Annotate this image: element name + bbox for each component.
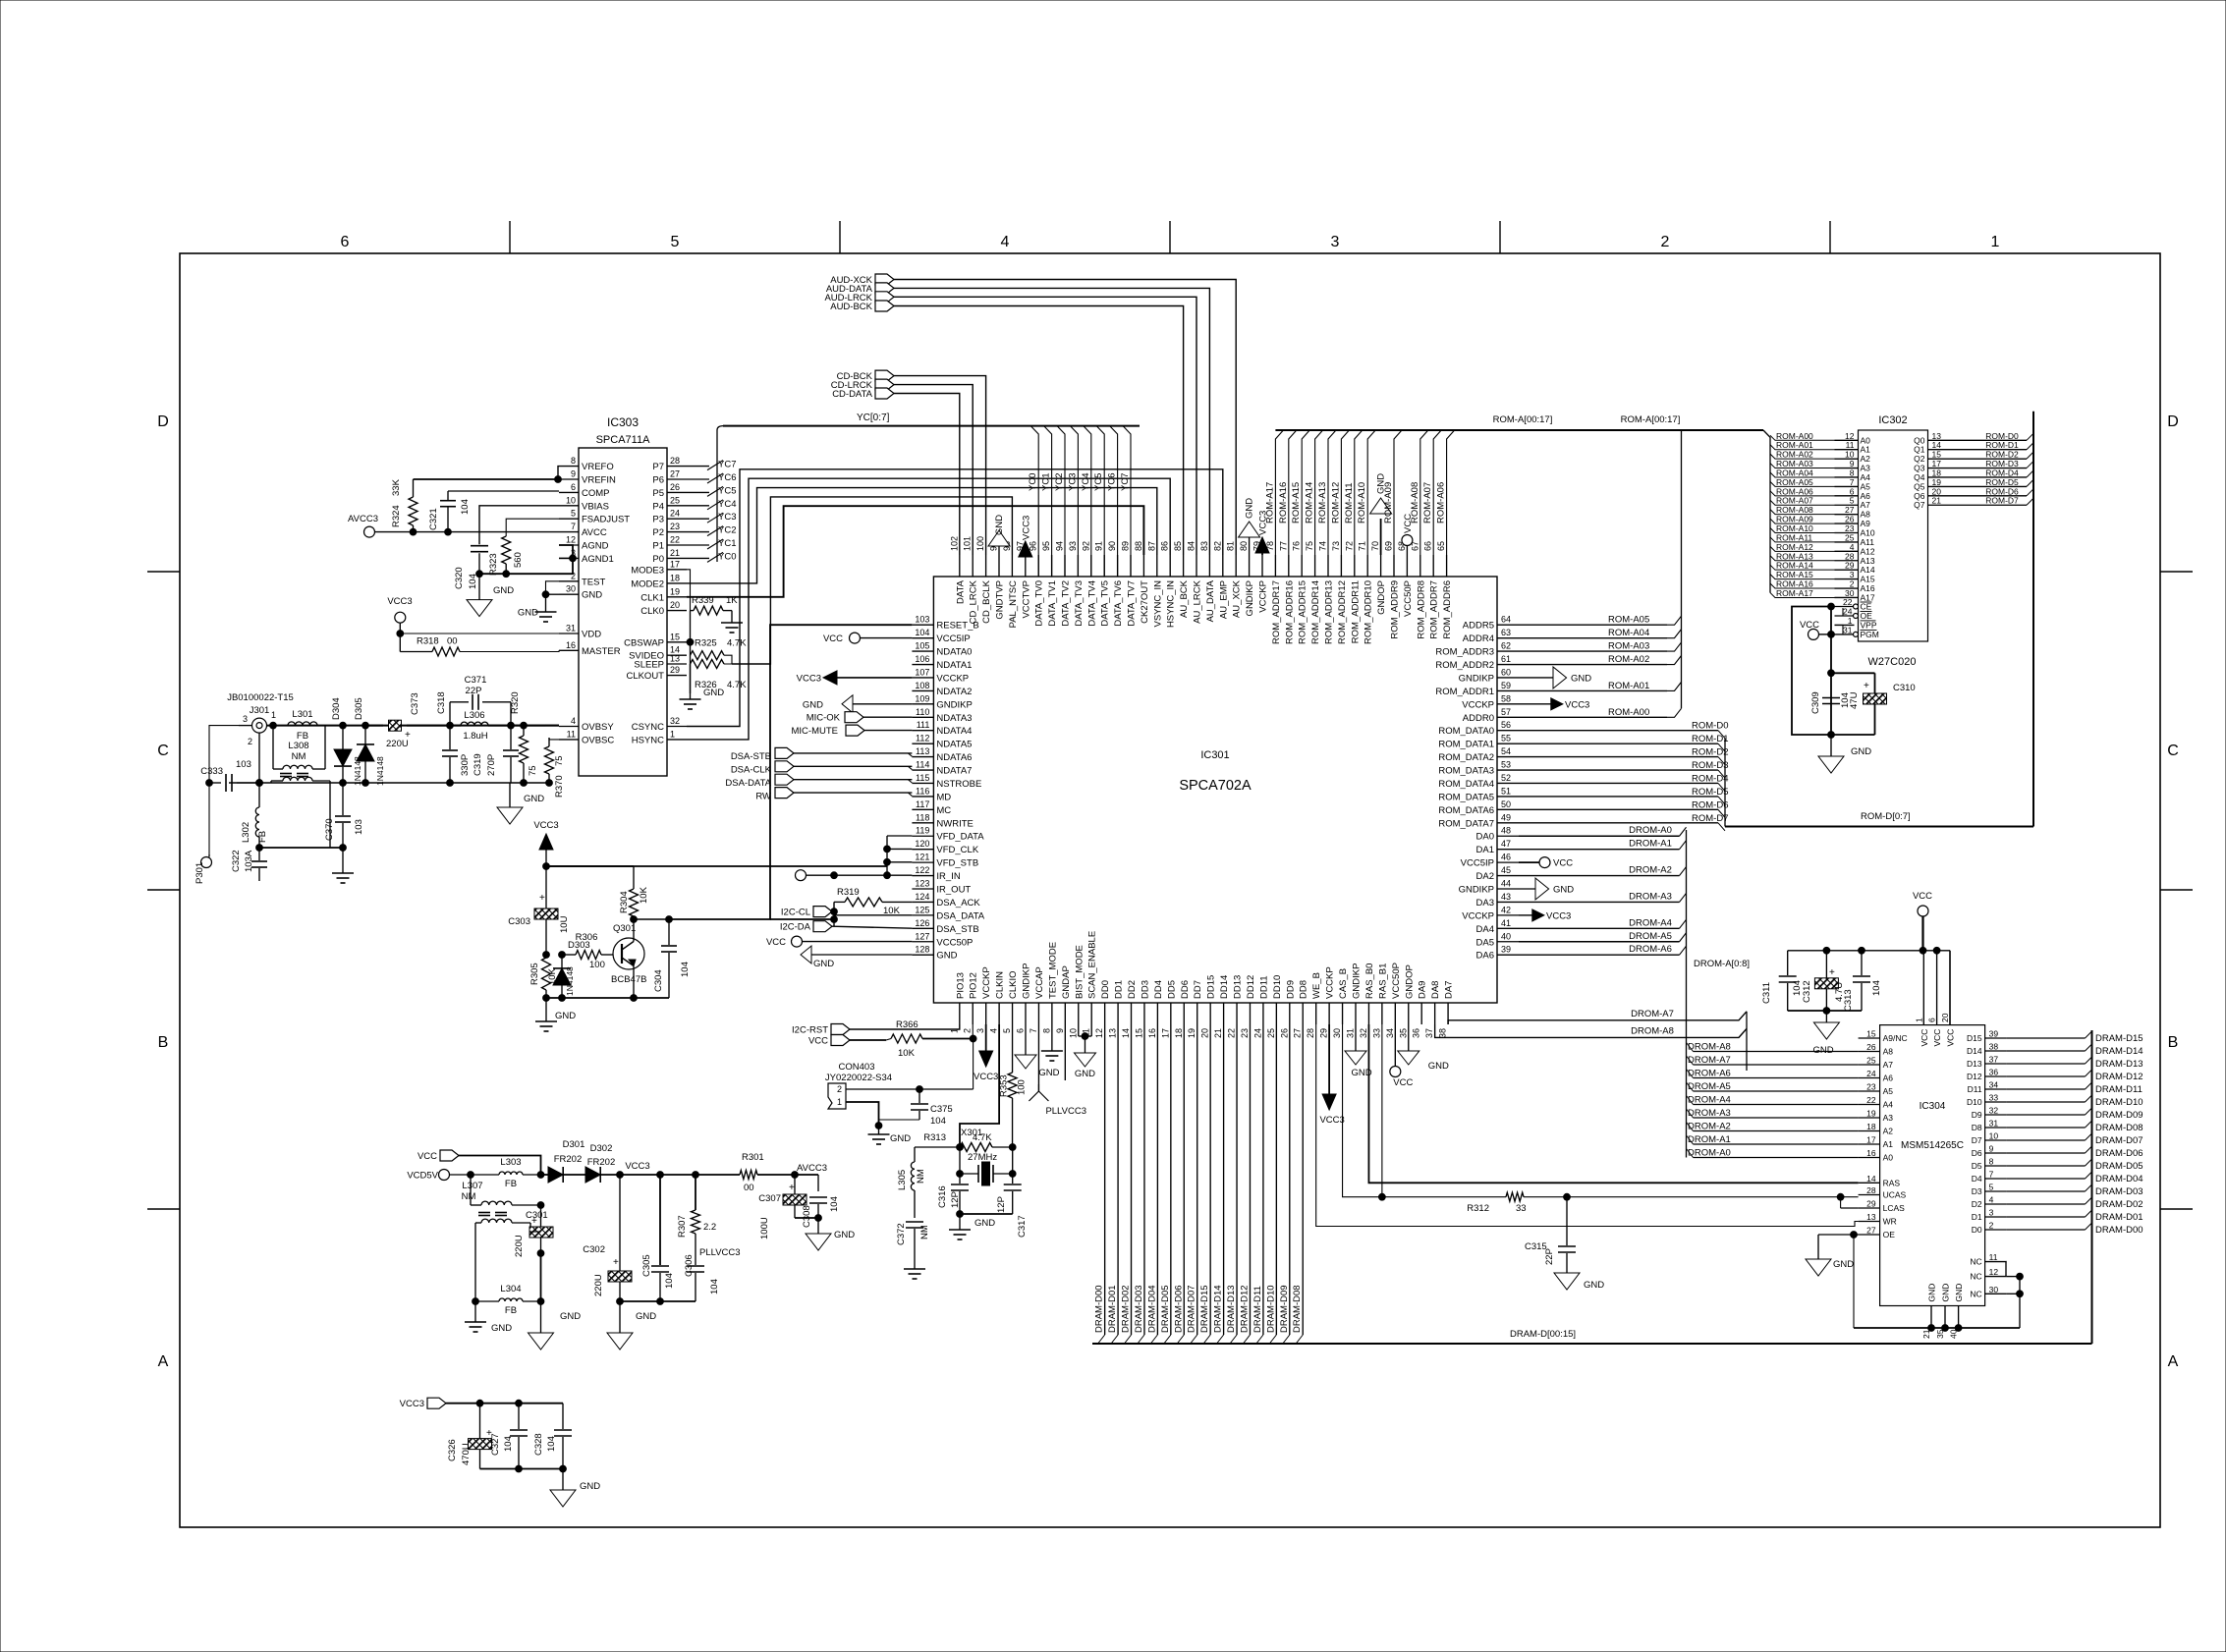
svg-text:90: 90 xyxy=(1107,541,1117,551)
svg-text:66: 66 xyxy=(1423,541,1433,551)
svg-text:VCC: VCC xyxy=(823,633,843,644)
svg-text:53: 53 xyxy=(1501,760,1511,770)
svg-text:MIC-MUTE: MIC-MUTE xyxy=(792,726,839,737)
svg-text:C373: C373 xyxy=(410,692,420,715)
svg-text:75: 75 xyxy=(1305,541,1314,551)
svg-text:16: 16 xyxy=(1147,1028,1157,1038)
svg-text:51: 51 xyxy=(1501,786,1511,796)
svg-text:DRAM-D05: DRAM-D05 xyxy=(1160,1285,1171,1333)
svg-text:70: 70 xyxy=(1370,541,1380,551)
svg-text:D6: D6 xyxy=(1972,1148,1982,1158)
svg-text:38: 38 xyxy=(1438,1028,1448,1038)
svg-text:OE: OE xyxy=(1883,1230,1896,1239)
svg-text:116: 116 xyxy=(916,786,929,796)
svg-text:ROM-A00: ROM-A00 xyxy=(1608,707,1649,718)
svg-text:71: 71 xyxy=(1358,541,1367,551)
svg-text:118: 118 xyxy=(916,812,929,822)
svg-text:4: 4 xyxy=(989,1028,999,1033)
svg-text:114: 114 xyxy=(916,760,929,770)
svg-text:23: 23 xyxy=(670,522,680,531)
svg-text:D5: D5 xyxy=(1972,1161,1982,1171)
svg-text:DRAM-D03: DRAM-D03 xyxy=(1134,1285,1144,1333)
svg-text:L307: L307 xyxy=(462,1181,482,1191)
svg-text:112: 112 xyxy=(916,734,929,743)
svg-text:11: 11 xyxy=(567,729,576,739)
svg-text:MASTER: MASTER xyxy=(582,646,621,657)
svg-text:10U: 10U xyxy=(559,915,570,933)
svg-text:AU_BCK: AU_BCK xyxy=(1179,579,1190,618)
op-amp U1 IC301 SPCA702A main chip xyxy=(912,536,1519,1038)
inductor L302 FB xyxy=(241,783,268,851)
svg-text:104: 104 xyxy=(468,574,478,589)
svg-text:35: 35 xyxy=(1398,1028,1408,1038)
svg-text:C312: C312 xyxy=(1802,980,1812,1003)
svg-text:DROM-A6: DROM-A6 xyxy=(1688,1069,1731,1079)
bus DROM-A[0:8] xyxy=(1687,830,1751,1158)
resistor R320 75 xyxy=(510,691,559,786)
svg-text:AVCC3: AVCC3 xyxy=(348,514,378,524)
svg-text:NDATA1: NDATA1 xyxy=(936,660,972,671)
node VCC3 flag bottom xyxy=(400,1398,563,1409)
svg-text:VCCKP: VCCKP xyxy=(936,673,969,684)
svg-text:89: 89 xyxy=(1121,541,1131,551)
svg-text:C304: C304 xyxy=(653,969,664,992)
svg-text:VREFIN: VREFIN xyxy=(582,475,616,486)
svg-text:Q7: Q7 xyxy=(1914,500,1925,510)
svg-text:R353: R353 xyxy=(999,1074,1010,1097)
svg-text:DD7: DD7 xyxy=(1193,980,1203,999)
svg-text:24: 24 xyxy=(1866,1069,1876,1078)
svg-text:C375: C375 xyxy=(930,1104,953,1115)
svg-text:GNDIKP: GNDIKP xyxy=(936,699,972,710)
svg-text:AGND1: AGND1 xyxy=(582,554,614,565)
svg-text:CBSWAP: CBSWAP xyxy=(624,637,664,648)
svg-text:GND: GND xyxy=(580,1481,600,1492)
svg-text:13: 13 xyxy=(1866,1212,1876,1222)
svg-text:D8: D8 xyxy=(1972,1123,1982,1132)
ground GND at GNDIKP60 xyxy=(1519,667,1591,688)
svg-text:31: 31 xyxy=(1989,1119,1999,1129)
wire crystal gnd xyxy=(960,1213,1013,1215)
svg-text:55: 55 xyxy=(1501,734,1511,743)
svg-text:10: 10 xyxy=(566,495,576,505)
capacitor C320 104 xyxy=(454,506,559,589)
svg-text:ADDR0: ADDR0 xyxy=(1463,713,1494,724)
ground GND at C308 xyxy=(806,1218,855,1250)
svg-text:YC2: YC2 xyxy=(718,525,736,536)
wire LCAS hook xyxy=(1837,1193,1858,1208)
svg-text:R325: R325 xyxy=(695,637,717,648)
svg-text:OVBSY: OVBSY xyxy=(582,722,614,733)
svg-text:DATA_TV4: DATA_TV4 xyxy=(1086,580,1097,627)
svg-text:CD_LRCK: CD_LRCK xyxy=(969,579,979,624)
svg-text:80: 80 xyxy=(1239,541,1249,551)
ground GND bar L304 xyxy=(465,1301,512,1334)
capacitor C312 4.7U polarized xyxy=(1802,951,1845,1011)
ground GND at GNDIKP109 xyxy=(803,695,913,713)
svg-text:85: 85 xyxy=(1173,541,1183,551)
ground GND Q301 xyxy=(535,998,576,1031)
svg-text:27: 27 xyxy=(1293,1028,1303,1038)
svg-text:95: 95 xyxy=(1041,541,1051,551)
svg-text:10: 10 xyxy=(1989,1131,1999,1141)
svg-text:82: 82 xyxy=(1212,541,1222,551)
power VCC3 at VCCKP42 xyxy=(1519,909,1571,922)
svg-text:14: 14 xyxy=(1121,1028,1131,1038)
svg-text:NC: NC xyxy=(1970,1289,1981,1298)
svg-text:VFD_DATA: VFD_DATA xyxy=(936,832,984,843)
svg-text:C303: C303 xyxy=(508,916,530,927)
svg-text:R319: R319 xyxy=(837,887,860,898)
svg-text:YC4: YC4 xyxy=(718,499,736,510)
svg-text:P3: P3 xyxy=(652,515,664,525)
svg-text:DROM-A2: DROM-A2 xyxy=(1688,1122,1731,1132)
svg-text:D12: D12 xyxy=(1967,1072,1982,1081)
wire CLKIN to crystal xyxy=(960,1024,999,1147)
svg-text:GNDIKP: GNDIKP xyxy=(1459,673,1494,684)
svg-text:25: 25 xyxy=(670,495,680,505)
svg-text:GND: GND xyxy=(890,1133,911,1144)
svg-text:D4: D4 xyxy=(1972,1174,1982,1184)
wire IC302 Q fan xyxy=(1952,431,2034,506)
ground GND at GNDIKP6 xyxy=(1015,1024,1036,1069)
svg-text:DRAM-D14: DRAM-D14 xyxy=(1213,1285,1224,1333)
svg-text:36: 36 xyxy=(1412,1028,1421,1038)
svg-text:FB: FB xyxy=(505,1179,517,1189)
svg-text:46: 46 xyxy=(1501,853,1511,862)
svg-text:ROM-D3: ROM-D3 xyxy=(1692,760,1728,771)
svg-text:270P: 270P xyxy=(486,754,497,776)
svg-text:DRAM-D15: DRAM-D15 xyxy=(2095,1033,2143,1044)
svg-text:C311: C311 xyxy=(1761,982,1772,1004)
transformer L307 NM xyxy=(462,1175,544,1301)
svg-text:33: 33 xyxy=(1371,1028,1381,1038)
svg-text:DD9: DD9 xyxy=(1285,980,1296,999)
svg-text:P7: P7 xyxy=(652,462,664,472)
svg-text:DRAM-D06: DRAM-D06 xyxy=(1173,1285,1184,1333)
svg-text:ROM_ADDR16: ROM_ADDR16 xyxy=(1284,580,1295,644)
svg-text:ROM_DATA3: ROM_DATA3 xyxy=(1438,766,1494,777)
svg-text:ROM_DATA4: ROM_DATA4 xyxy=(1438,779,1494,790)
svg-text:GND: GND xyxy=(555,1011,576,1021)
svg-text:DA4: DA4 xyxy=(1476,924,1494,935)
svg-text:+: + xyxy=(789,1183,795,1193)
svg-text:R339: R339 xyxy=(692,595,714,606)
svg-text:DRAM-D12: DRAM-D12 xyxy=(2095,1072,2143,1082)
svg-text:AU_EMP: AU_EMP xyxy=(1218,580,1229,619)
svg-text:VCC: VCC xyxy=(417,1151,437,1162)
svg-text:125: 125 xyxy=(915,905,929,914)
node I2C-RST xyxy=(792,1024,960,1036)
ground GND at GNDIKP44 xyxy=(1519,878,1574,900)
svg-text:28: 28 xyxy=(1306,1028,1315,1038)
resistor R353 100 xyxy=(999,1024,1028,1147)
svg-text:ROM-A17: ROM-A17 xyxy=(1776,588,1813,598)
svg-text:VCC3: VCC3 xyxy=(625,1161,649,1172)
svg-text:DRAM-D13: DRAM-D13 xyxy=(2095,1059,2143,1070)
svg-text:DROM-A8: DROM-A8 xyxy=(1631,1026,1674,1037)
svg-text:RAS_B0: RAS_B0 xyxy=(1364,964,1375,999)
svg-text:C: C xyxy=(2167,743,2179,759)
svg-text:113: 113 xyxy=(916,746,929,756)
svg-text:L301: L301 xyxy=(292,709,312,720)
svg-text:A2: A2 xyxy=(1883,1127,1894,1136)
svg-text:VCC: VCC xyxy=(1946,1029,1956,1047)
capacitor C305 104 xyxy=(641,1175,675,1304)
svg-text:D7: D7 xyxy=(1972,1135,1982,1145)
svg-text:GND: GND xyxy=(1038,1068,1059,1078)
svg-text:D0: D0 xyxy=(1972,1225,1982,1235)
svg-text:37: 37 xyxy=(1989,1055,1999,1065)
svg-text:ROM-A[00:17]: ROM-A[00:17] xyxy=(1621,414,1681,425)
ground GND video xyxy=(497,783,544,824)
svg-text:DROM-A[0:8]: DROM-A[0:8] xyxy=(1694,959,1750,969)
capacitor C326 470U polarized xyxy=(447,1404,492,1469)
ground GND at GNDOP35 xyxy=(1398,1024,1449,1072)
svg-text:D304: D304 xyxy=(331,697,342,720)
svg-text:DD3: DD3 xyxy=(1140,980,1150,999)
svg-text:CON403: CON403 xyxy=(839,1062,875,1073)
svg-text:GND: GND xyxy=(1954,1284,1964,1302)
svg-text:D3: D3 xyxy=(1972,1186,1982,1196)
resistor R318 00 xyxy=(400,633,559,656)
svg-text:GND: GND xyxy=(582,590,602,601)
svg-text:104: 104 xyxy=(546,1436,557,1452)
svg-text:PIO13: PIO13 xyxy=(955,972,966,999)
svg-text:17: 17 xyxy=(1160,1028,1170,1038)
ground GND at pin128 xyxy=(801,946,912,969)
svg-text:A5: A5 xyxy=(1883,1086,1894,1096)
svg-text:CE: CE xyxy=(1861,602,1872,612)
svg-text:FR202: FR202 xyxy=(587,1157,616,1168)
svg-text:30: 30 xyxy=(1332,1028,1342,1038)
wire VCC3 rail to VFD pullups xyxy=(546,836,912,879)
node P301 xyxy=(195,854,212,884)
svg-text:3: 3 xyxy=(975,1028,985,1033)
svg-text:NC: NC xyxy=(1970,1272,1981,1282)
node DSA-CLK xyxy=(731,761,913,776)
svg-text:47: 47 xyxy=(1501,839,1511,849)
svg-text:103: 103 xyxy=(354,819,364,835)
ground GND at GNDTVP xyxy=(988,515,1010,555)
node VCC3 at VDD xyxy=(387,596,559,636)
svg-text:33: 33 xyxy=(1516,1203,1527,1214)
svg-text:NDATA2: NDATA2 xyxy=(936,687,972,697)
svg-text:GNDIKP: GNDIKP xyxy=(1022,964,1032,999)
svg-text:DD11: DD11 xyxy=(1258,975,1269,999)
svg-text:13: 13 xyxy=(1108,1028,1118,1038)
svg-text:+: + xyxy=(1864,681,1869,691)
svg-text:47U: 47U xyxy=(1849,691,1860,709)
svg-text:12: 12 xyxy=(1989,1267,1999,1277)
svg-text:44: 44 xyxy=(1501,879,1511,889)
svg-text:560: 560 xyxy=(513,552,524,568)
svg-text:P6: P6 xyxy=(652,475,664,486)
wire ROM_DATA fan xyxy=(1519,721,1728,831)
ground GND tri main xyxy=(529,1301,582,1349)
svg-text:DATA: DATA xyxy=(955,579,966,604)
svg-text:ROM_ADDR13: ROM_ADDR13 xyxy=(1324,580,1335,644)
svg-text:DRAM-D07: DRAM-D07 xyxy=(2095,1135,2143,1146)
wire NC ties xyxy=(2006,1262,2023,1328)
ground GND at crystal xyxy=(949,1214,995,1239)
svg-text:VCCKP: VCCKP xyxy=(981,966,992,999)
svg-text:DD14: DD14 xyxy=(1219,975,1230,999)
svg-text:3: 3 xyxy=(1331,234,1340,250)
svg-text:NDATA6: NDATA6 xyxy=(936,752,972,763)
svg-text:128: 128 xyxy=(915,945,929,955)
svg-text:ROM-A01: ROM-A01 xyxy=(1608,681,1649,691)
svg-text:DSA-DATA: DSA-DATA xyxy=(725,778,771,789)
svg-text:15: 15 xyxy=(1866,1029,1876,1039)
svg-text:AVCC: AVCC xyxy=(582,527,607,538)
svg-text:AVCC3: AVCC3 xyxy=(797,1163,827,1174)
node CD-DATA xyxy=(832,388,960,555)
node DSA-DATA xyxy=(725,774,912,789)
svg-text:ROM-A17: ROM-A17 xyxy=(1264,482,1275,523)
svg-text:DD6: DD6 xyxy=(1180,980,1191,999)
svg-text:DRAM-D05: DRAM-D05 xyxy=(2095,1161,2143,1172)
svg-text:16: 16 xyxy=(566,640,576,650)
svg-text:A7: A7 xyxy=(1883,1060,1894,1070)
svg-text:GND: GND xyxy=(1075,1069,1095,1079)
svg-text:27: 27 xyxy=(670,469,680,479)
svg-text:MIC-OK: MIC-OK xyxy=(807,713,841,724)
svg-text:DRAM-D10: DRAM-D10 xyxy=(1265,1285,1276,1333)
svg-text:CK27OUT: CK27OUT xyxy=(1140,580,1150,624)
svg-text:C318: C318 xyxy=(436,691,447,714)
svg-text:NM: NM xyxy=(916,1169,926,1184)
svg-text:100: 100 xyxy=(589,960,605,970)
svg-text:2: 2 xyxy=(963,1028,973,1033)
capacitor C316 12P xyxy=(937,1174,969,1217)
svg-text:GND: GND xyxy=(1245,498,1255,519)
svg-text:ROM-A12: ROM-A12 xyxy=(1330,482,1341,523)
svg-text:GNDOP: GNDOP xyxy=(1376,580,1387,615)
svg-text:60: 60 xyxy=(1501,667,1511,677)
svg-text:P1: P1 xyxy=(652,541,664,552)
ground GND triangle OE xyxy=(1806,1235,1854,1276)
svg-text:GND: GND xyxy=(703,688,724,698)
power VCC at VCC5IP xyxy=(823,633,912,644)
svg-text:C306: C306 xyxy=(684,1254,695,1277)
svg-text:NWRITE: NWRITE xyxy=(936,818,973,829)
svg-text:36: 36 xyxy=(1989,1068,1999,1077)
ground GND at GNDIKP31 xyxy=(1345,1024,1372,1078)
svg-text:32: 32 xyxy=(670,716,680,726)
ground GND cap bank xyxy=(550,1469,600,1508)
capacitor C313 104 xyxy=(1843,951,1882,1012)
svg-text:5: 5 xyxy=(671,234,680,250)
svg-text:4: 4 xyxy=(1001,234,1010,250)
svg-text:8: 8 xyxy=(1041,1028,1051,1033)
svg-text:DA8: DA8 xyxy=(1430,981,1441,999)
svg-text:P4: P4 xyxy=(652,501,664,512)
svg-text:PAL_NTSC: PAL_NTSC xyxy=(1008,580,1019,629)
svg-text:22: 22 xyxy=(670,535,680,545)
wire RESET_B xyxy=(669,625,912,919)
transformer L308 NM xyxy=(271,726,330,838)
svg-text:NDATA0: NDATA0 xyxy=(936,647,972,658)
svg-text:GNDOP: GNDOP xyxy=(1404,964,1415,999)
op-amp U3 IC303 SPCA711A video encoder xyxy=(559,415,687,776)
svg-text:L305: L305 xyxy=(897,1170,908,1190)
svg-text:R370: R370 xyxy=(554,775,565,798)
svg-text:2.2: 2.2 xyxy=(703,1222,716,1233)
wire caps gnd rail xyxy=(1788,1008,1862,1015)
svg-text:38: 38 xyxy=(1989,1042,1999,1052)
svg-text:R306: R306 xyxy=(576,932,598,943)
svg-text:104: 104 xyxy=(915,628,929,637)
svg-text:DROM-A7: DROM-A7 xyxy=(1688,1055,1731,1066)
svg-text:Q301: Q301 xyxy=(613,923,636,934)
svg-text:GND: GND xyxy=(1351,1068,1371,1078)
svg-text:10K: 10K xyxy=(898,1048,916,1059)
svg-text:1: 1 xyxy=(670,729,675,739)
capacitor C373 220U polarized xyxy=(365,692,450,749)
svg-text:32: 32 xyxy=(1359,1028,1368,1038)
node AUD-XCK xyxy=(830,274,1236,555)
svg-text:104: 104 xyxy=(503,1436,514,1452)
svg-text:DATA_TV3: DATA_TV3 xyxy=(1074,580,1085,627)
svg-text:56: 56 xyxy=(1501,720,1511,730)
svg-text:OVBSC: OVBSC xyxy=(582,735,614,745)
svg-text:23: 23 xyxy=(1240,1028,1250,1038)
svg-text:C313: C313 xyxy=(1843,989,1854,1012)
svg-text:DRAM-D09: DRAM-D09 xyxy=(2095,1110,2143,1121)
svg-text:58: 58 xyxy=(1501,693,1511,703)
svg-text:103: 103 xyxy=(915,615,929,625)
svg-text:DA7: DA7 xyxy=(1444,981,1455,999)
svg-text:4.7K: 4.7K xyxy=(727,680,747,690)
svg-text:YC3: YC3 xyxy=(718,512,736,523)
svg-text:ROM_ADDR8: ROM_ADDR8 xyxy=(1416,580,1426,639)
svg-text:C308: C308 xyxy=(802,1205,812,1228)
svg-text:GND: GND xyxy=(1428,1061,1449,1072)
connector CON403 JY0220022-S34 xyxy=(825,1039,974,1129)
svg-text:77: 77 xyxy=(1278,541,1288,551)
svg-text:DRAM-D00: DRAM-D00 xyxy=(2095,1225,2143,1236)
svg-text:69: 69 xyxy=(1384,541,1394,551)
capacitor C301 220U polarized xyxy=(514,1205,553,1257)
svg-text:DD4: DD4 xyxy=(1153,980,1164,999)
ground GND at TEST_MODE xyxy=(1038,1024,1063,1078)
svg-text:27MHz: 27MHz xyxy=(968,1152,997,1163)
svg-text:45: 45 xyxy=(1501,865,1511,875)
svg-text:GND: GND xyxy=(1812,1045,1833,1056)
svg-text:101: 101 xyxy=(963,536,973,551)
resistor R305 10K xyxy=(529,958,558,1001)
svg-text:VCC: VCC xyxy=(808,1036,828,1047)
capacitor C322 103A xyxy=(231,848,267,881)
svg-text:+: + xyxy=(613,1257,619,1268)
svg-text:5: 5 xyxy=(1989,1183,1994,1192)
svg-text:23: 23 xyxy=(1866,1082,1876,1092)
svg-text:1K: 1K xyxy=(726,595,738,606)
svg-text:7: 7 xyxy=(1989,1170,1994,1180)
svg-text:D11: D11 xyxy=(1968,1084,1982,1094)
resistor R339 1K xyxy=(687,570,743,633)
svg-text:R313: R313 xyxy=(923,1132,946,1143)
svg-text:7: 7 xyxy=(571,522,576,531)
wire power gnd rail xyxy=(620,1300,660,1302)
svg-text:119: 119 xyxy=(916,826,929,836)
wire cap bank gnd xyxy=(480,1468,564,1470)
svg-text:GND: GND xyxy=(1584,1280,1604,1291)
svg-text:TEST_MODE: TEST_MODE xyxy=(1047,942,1058,999)
svg-text:120: 120 xyxy=(915,839,929,849)
svg-text:12: 12 xyxy=(1094,1028,1104,1038)
